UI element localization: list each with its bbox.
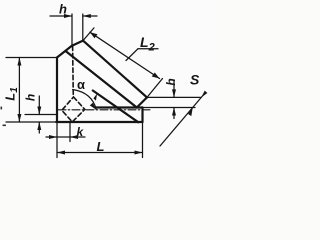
svg-text:h: h: [164, 78, 178, 85]
svg-text:L: L: [97, 139, 105, 154]
svg-text:h: h: [23, 94, 37, 101]
svg-text:S: S: [190, 72, 200, 88]
svg-text:h: h: [59, 2, 67, 17]
svg-text:α: α: [77, 77, 85, 92]
